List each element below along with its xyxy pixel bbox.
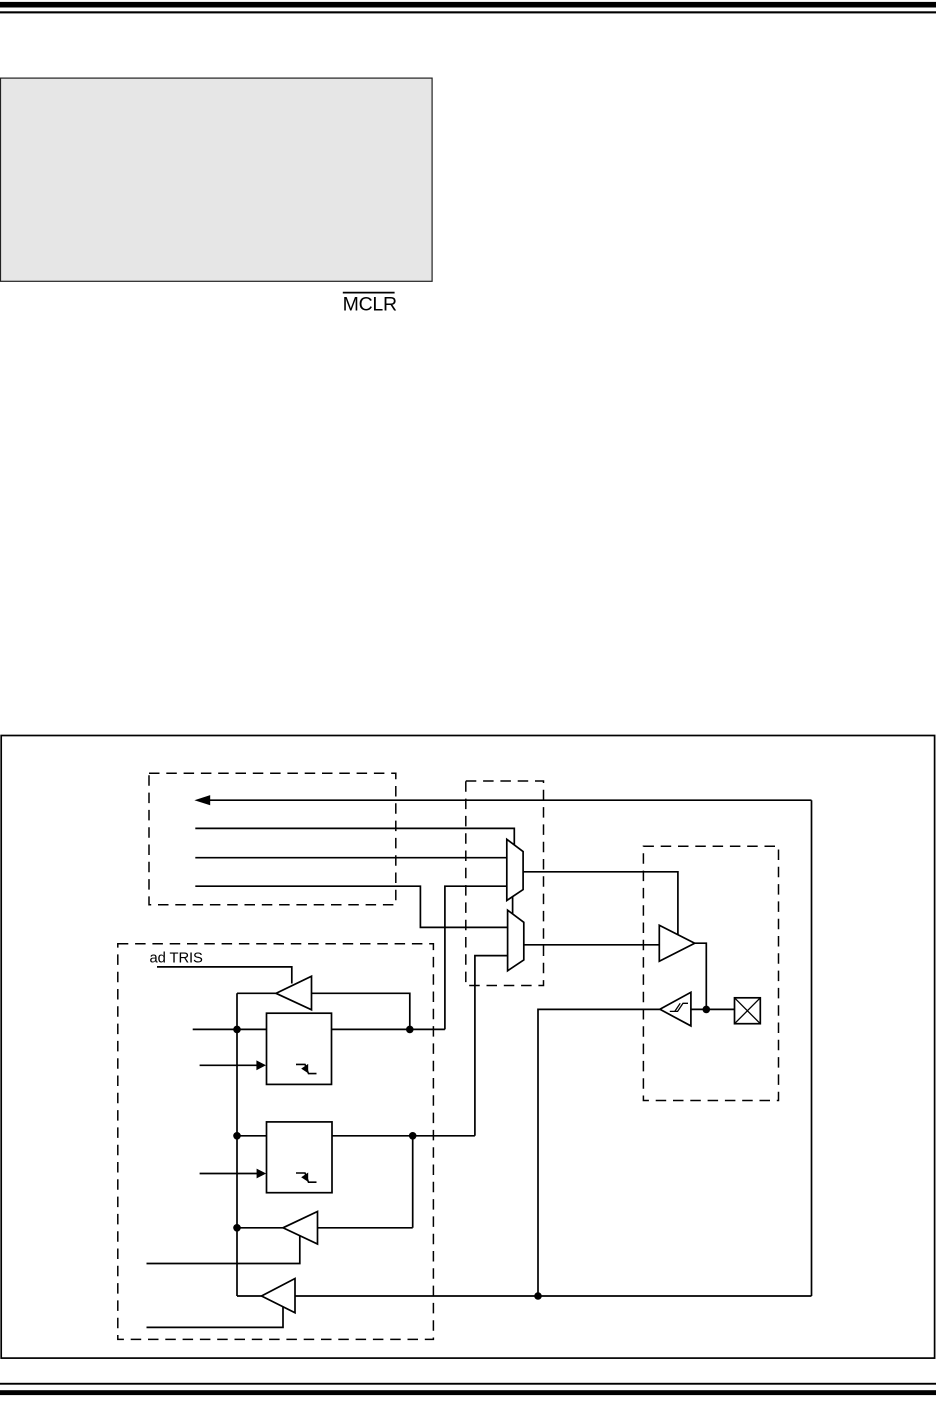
wire: buffer1 output to internal bus: [237, 992, 276, 994]
dashed box C: output driver region (right): [643, 846, 778, 1100]
wire: mux1 output to output buffer: [523, 872, 678, 935]
mux MUX2: [508, 910, 524, 971]
junction bus/data D: [233, 1132, 241, 1140]
wire: buffer3 input from pin read path: [295, 1295, 812, 1297]
arrowhead TRIS latch clock: [256, 1060, 266, 1070]
tri-state buffer Q2 (read port latch): [283, 1212, 318, 1245]
wire: read TRIS line into buffer1: [157, 967, 292, 984]
junction TRIS Q / buffer1 input: [406, 1026, 414, 1034]
TRIS latch edge symbol arrow: [301, 1064, 308, 1073]
wire: buffer2 input: [318, 1227, 413, 1229]
junction bus/buffer2 output: [233, 1224, 241, 1232]
TRIS latch U2: [267, 1013, 332, 1084]
wire: buffer2 enable: [147, 1236, 300, 1264]
output buffer U1: [659, 925, 694, 961]
mux MUX1: [507, 839, 523, 900]
schmitt trigger input buffer: [660, 992, 691, 1026]
wire: buffer2 output to bus: [237, 1227, 283, 1229]
wire: TRIS latch D input: [193, 1028, 267, 1030]
wire: data bus line 4 stepping down to mux2 upper input: [195, 886, 507, 927]
data latch edge symbol: [296, 1173, 317, 1182]
dashed box D: port latch region (left): [118, 944, 434, 1340]
I/O pad X mark: [735, 998, 761, 1024]
I/O pad: [735, 998, 761, 1024]
tri-state buffer Q3 (read port pin): [262, 1279, 296, 1313]
junction bus/TRIS D: [233, 1026, 241, 1034]
wire: TRIS latch Q riser to mux1 lower input: [445, 886, 507, 1029]
junction on pad net: [703, 1006, 711, 1014]
dashed box B: multiplexer region (middle): [466, 781, 544, 986]
wire: internal data bus vertical: [236, 993, 238, 1296]
wire: buffer3 enable: [147, 1307, 284, 1328]
wire: output buffer to pad: [695, 943, 707, 1009]
footer thick rule: [0, 1390, 936, 1395]
arrowhead on data bus read line: [194, 795, 210, 805]
data latch U3: [267, 1122, 333, 1193]
tri-state buffer Q1 (read TRIS): [276, 976, 312, 1010]
wire: data latch Q riser to mux2 lower input: [475, 956, 508, 1136]
wire: mux select link between mux1 and mux2: [512, 897, 514, 915]
header thick rule: [0, 2, 936, 8]
wire: TRIS latch Q output: [332, 1028, 445, 1030]
wire: data latch clock input: [200, 1173, 259, 1175]
wire: data latch Q output: [332, 1135, 475, 1137]
footer thin rule: [0, 1383, 936, 1385]
arrowhead data latch clock: [257, 1169, 267, 1179]
svg-text:MCLR: MCLR: [343, 294, 397, 316]
wire: data bus line 3 into mux1 upper input: [195, 857, 507, 859]
wire: right vertical feedback from pin read path: [811, 800, 813, 1296]
wire: mux2 output to output buffer input: [524, 944, 660, 946]
wire: buffer3 output to bus: [237, 1295, 262, 1297]
wire: TRIS latch clock input: [200, 1064, 258, 1066]
schmitt hysteresis symbol: [670, 1003, 688, 1011]
wire: data bus line 2 into mux1 select: [195, 828, 514, 845]
wire: data latch D input: [237, 1135, 267, 1137]
wire: schmitt output to read path: [538, 1009, 660, 1296]
figure frame: [1, 736, 934, 1359]
wire: pad net to schmitt input: [691, 1008, 735, 1010]
wire: read data bus line with arrow to left: [208, 799, 812, 801]
MCLR overline: [343, 292, 395, 294]
junction on read path: [534, 1292, 542, 1300]
svg-text:ad TRIS: ad TRIS: [150, 951, 204, 967]
note box (gray): [1, 78, 433, 281]
junction data Q / buffer2 input: [409, 1132, 417, 1140]
wire: buffer2 input riser: [412, 1136, 414, 1228]
header thin rule: [0, 11, 936, 13]
TRIS latch edge symbol: [296, 1064, 317, 1073]
wire: buffer1 input from TRIS latch Q: [312, 993, 410, 1029]
data latch edge symbol arrow: [301, 1173, 308, 1182]
dashed box A: data bus region (top-left): [149, 773, 396, 904]
